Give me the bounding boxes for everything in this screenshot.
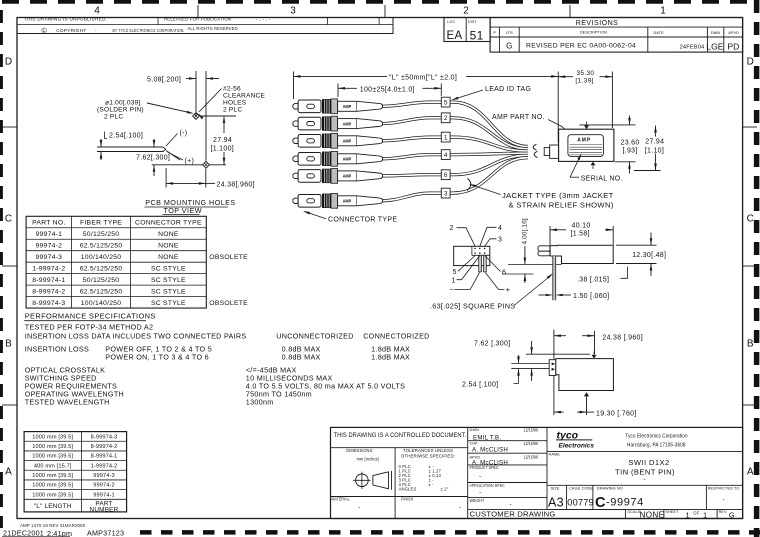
svg-text:[1.10]: [1.10] <box>645 147 664 154</box>
svg-text:1-99974-2: 1-99974-2 <box>32 265 65 272</box>
svg-text:INSERTION LOSS DATA INCLUDE: INSERTION LOSS DATA INCLUDES TWO CONNECT… <box>25 331 247 340</box>
svg-text:C: C <box>747 214 754 225</box>
svg-text:12/15/96: 12/15/96 <box>524 454 539 459</box>
svg-text:99974-3: 99974-3 <box>93 473 115 479</box>
svg-text:[1.58]: [1.58] <box>571 231 590 238</box>
svg-text:PART NO.: PART NO. <box>32 220 65 227</box>
svg-text:(SOLDER PIN): (SOLDER PIN) <box>97 107 144 114</box>
svg-text:A: A <box>5 467 12 478</box>
svg-text:EMIL T.B.: EMIL T.B. <box>473 434 501 441</box>
svg-text:2.54 [.100]: 2.54 [.100] <box>462 382 498 389</box>
svg-text:3: 3 <box>444 191 448 198</box>
svg-text:6: 6 <box>444 172 448 179</box>
svg-text:± -: ± - <box>429 482 435 487</box>
svg-text:ALL RIGHTS RESERVED.: ALL RIGHTS RESERVED. <box>188 26 240 31</box>
svg-text:A3: A3 <box>548 496 564 510</box>
svg-text:–: – <box>450 286 454 293</box>
svg-text:.63[.025] SQUARE PINS: .63[.025] SQUARE PINS <box>430 302 515 311</box>
svg-text:AMP: AMP <box>343 121 352 126</box>
svg-text:24.38[.960]: 24.38[.960] <box>217 181 255 188</box>
svg-text:100/140/250: 100/140/250 <box>81 254 122 261</box>
svg-text:P: P <box>493 31 496 35</box>
svg-text:D: D <box>747 57 754 68</box>
svg-text:12/15/96: 12/15/96 <box>524 427 539 432</box>
svg-text:50/125/250: 50/125/250 <box>83 277 120 284</box>
svg-text:40.10: 40.10 <box>572 222 591 229</box>
svg-text:FINISH: FINISH <box>401 496 413 501</box>
svg-text:CHK: CHK <box>470 442 479 446</box>
svg-text:1000 mm [39.5]: 1000 mm [39.5] <box>32 492 73 498</box>
svg-text:[1.100]: [1.100] <box>211 146 235 153</box>
svg-text:OBSOLETE: OBSOLETE <box>209 254 248 261</box>
svg-text:PD: PD <box>727 42 739 52</box>
svg-text:SC STYLE: SC STYLE <box>151 300 186 307</box>
svg-text:2: 2 <box>463 6 469 17</box>
svg-text:4.00[.16]: 4.00[.16] <box>521 218 528 244</box>
svg-text:7.62 [.300]: 7.62 [.300] <box>474 341 510 348</box>
svg-text:51: 51 <box>470 29 484 43</box>
svg-text:-: - <box>643 477 646 484</box>
svg-text:1300nm: 1300nm <box>246 397 274 406</box>
svg-text:& STRAIN RELIEF SHOWN): & STRAIN RELIEF SHOWN) <box>509 200 614 209</box>
svg-text:1: 1 <box>444 135 448 142</box>
svg-text:1: 1 <box>685 511 689 520</box>
svg-text:-: - <box>723 497 726 504</box>
svg-text:3: 3 <box>498 236 502 243</box>
svg-text:-: - <box>479 490 482 497</box>
svg-text:± 2°: ± 2° <box>441 487 449 492</box>
svg-text:2: 2 <box>450 225 454 232</box>
svg-text:DWN: DWN <box>470 428 480 432</box>
svg-text:+: + <box>506 285 511 294</box>
svg-text:REVISIONS: REVISIONS <box>576 20 619 27</box>
svg-text:1: 1 <box>660 6 666 17</box>
svg-text:#2-56: #2-56 <box>223 86 241 93</box>
svg-text:27.94: 27.94 <box>213 137 232 144</box>
svg-text:DWN: DWN <box>711 31 721 35</box>
svg-text:CUSTOMER DRAWING: CUSTOMER DRAWING <box>470 509 556 518</box>
svg-text:C: C <box>5 214 12 225</box>
svg-text:4: 4 <box>94 6 100 17</box>
svg-text:7.62[.300]: 7.62[.300] <box>136 155 170 162</box>
svg-text:AMP37123: AMP37123 <box>87 529 124 537</box>
svg-text:-: - <box>358 504 361 511</box>
svg-text:-: - <box>95 28 97 33</box>
svg-text:DESCRIPTION: DESCRIPTION <box>580 31 607 35</box>
svg-text:AMP: AMP <box>343 156 352 161</box>
svg-text:[1.39]: [1.39] <box>575 78 593 85</box>
svg-text:DRAWING NO: DRAWING NO <box>597 486 623 490</box>
svg-text:- , - . -: - , - . - <box>256 16 271 21</box>
svg-text:©: © <box>42 27 48 35</box>
svg-text:5: 5 <box>453 269 457 276</box>
svg-text:8-99974-2: 8-99974-2 <box>91 444 118 450</box>
svg-text:SERIAL NO.: SERIAL NO. <box>581 176 623 183</box>
svg-text:RELEASED FOR PUBLICATION: RELEASED FOR PUBLICATION <box>164 16 231 21</box>
svg-text:B: B <box>747 339 754 350</box>
svg-text:2 PLC: 2 PLC <box>223 107 242 114</box>
svg-text:12.30[.48]: 12.30[.48] <box>632 252 666 259</box>
svg-text:LTR: LTR <box>506 31 513 35</box>
svg-text:99974-1: 99974-1 <box>93 492 115 498</box>
svg-text:100±25[4.0±1.0]: 100±25[4.0±1.0] <box>360 86 415 93</box>
svg-text:WEIGHT: WEIGHT <box>470 498 485 503</box>
svg-text:8-99974-2: 8-99974-2 <box>32 288 65 295</box>
svg-text:EA: EA <box>447 30 463 42</box>
svg-text:1000 mm [39.5]: 1000 mm [39.5] <box>32 483 73 489</box>
svg-text:35.30: 35.30 <box>576 70 594 77</box>
svg-text:5: 5 <box>444 100 448 107</box>
svg-text:LOC: LOC <box>447 20 455 24</box>
svg-text:JACKET TYPE (3mm JACKET: JACKET TYPE (3mm JACKET <box>502 191 614 200</box>
svg-text:[.93]: [.93] <box>623 147 638 154</box>
svg-text:1000 mm [39.5]: 1000 mm [39.5] <box>32 444 73 450</box>
svg-text:(-): (-) <box>180 130 188 137</box>
svg-text:AMP: AMP <box>343 104 352 109</box>
svg-text:1.50 [.060]: 1.50 [.060] <box>573 293 609 300</box>
svg-text:SC STYLE: SC STYLE <box>151 265 186 272</box>
svg-text:MATERIAL: MATERIAL <box>332 496 351 501</box>
svg-text:99974-2: 99974-2 <box>93 483 115 489</box>
svg-text:2:41pm: 2:41pm <box>47 529 72 537</box>
svg-text:BY TYCO ELECTRONICS CORPORATIO: BY TYCO ELECTRONICS CORPORATION. <box>113 27 185 33</box>
svg-text:APPLICATION SPEC: APPLICATION SPEC <box>470 482 505 487</box>
svg-text:PERFORMANCE SPECIFICATIONS: PERFORMANCE SPECIFICATIONS <box>25 312 156 321</box>
svg-text:SWII D1X2: SWII D1X2 <box>628 458 669 467</box>
svg-text:2: 2 <box>444 115 448 122</box>
svg-text:B: B <box>5 339 12 350</box>
svg-text:62.5/125/250: 62.5/125/250 <box>80 288 123 295</box>
svg-text:Tyco Electronics Corporation: Tyco Electronics Corporation <box>625 433 687 439</box>
svg-text:1-99974-2: 1-99974-2 <box>91 463 118 469</box>
svg-text:THIS DRAWING IS A CONTROLL: THIS DRAWING IS A CONTROLLED DOCUMENT. <box>334 433 467 439</box>
svg-text:1: 1 <box>703 511 707 520</box>
svg-text:REV: REV <box>719 510 727 514</box>
svg-text:00779: 00779 <box>567 497 594 507</box>
svg-text:SC STYLE: SC STYLE <box>151 277 186 284</box>
svg-text:1000 mm [39.5]: 1000 mm [39.5] <box>32 434 73 440</box>
svg-text:AMP PART NO.: AMP PART NO. <box>492 114 545 121</box>
svg-text:"L" ±50mm["L" ±2.0]: "L" ±50mm["L" ±2.0] <box>389 74 457 81</box>
svg-text:G: G <box>729 511 735 520</box>
svg-text:REVISED PER EC 0A00-0062-04: REVISED PER EC 0A00-0062-04 <box>526 43 636 50</box>
svg-text:100/140/250: 100/140/250 <box>81 300 122 307</box>
svg-text:NONE: NONE <box>640 511 665 520</box>
svg-text:NONE: NONE <box>158 231 179 238</box>
svg-text:CLEARANCE: CLEARANCE <box>223 93 266 100</box>
svg-text:12/15/96: 12/15/96 <box>524 440 539 445</box>
svg-text:24.38 [.960]: 24.38 [.960] <box>602 334 643 341</box>
svg-text:-99974: -99974 <box>606 497 644 509</box>
svg-text:C: C <box>595 495 606 511</box>
svg-text:POWER ON, 1 TO 3 & 4 T: POWER ON, 1 TO 3 & 4 TO 6 <box>105 352 209 361</box>
svg-text:mm [inches]: mm [inches] <box>357 456 379 461</box>
svg-text:INSERTION LOSS: INSERTION LOSS <box>25 344 89 353</box>
svg-text:1000 mm [39.5]: 1000 mm [39.5] <box>32 473 73 479</box>
svg-text:2 PLC: 2 PLC <box>104 114 123 121</box>
svg-text:NAME: NAME <box>549 452 561 456</box>
svg-text:DIST: DIST <box>468 20 478 24</box>
svg-text:8-99974-1: 8-99974-1 <box>32 277 65 284</box>
svg-text:5.08[.200]: 5.08[.200] <box>147 77 181 84</box>
svg-text:CONNECTOR TYPE: CONNECTOR TYPE <box>328 216 397 223</box>
svg-text:.38 [.015]: .38 [.015] <box>577 276 609 283</box>
svg-text:LGE: LGE <box>706 42 723 52</box>
svg-text:8-99974-3: 8-99974-3 <box>32 300 65 307</box>
svg-text:A: A <box>747 467 754 478</box>
svg-text:99974-2: 99974-2 <box>35 243 62 250</box>
svg-text:8-99974-3: 8-99974-3 <box>91 434 118 440</box>
svg-text:"L" LENGTH: "L" LENGTH <box>34 503 72 510</box>
svg-text:FIBER TYPE: FIBER TYPE <box>80 220 122 227</box>
svg-text:G: G <box>506 41 512 50</box>
svg-text:27.94: 27.94 <box>645 138 664 145</box>
svg-text:AMP: AMP <box>343 198 352 203</box>
svg-text:SIZE: SIZE <box>551 486 560 490</box>
svg-text:CAGE CODE: CAGE CODE <box>569 486 593 490</box>
svg-text:400 mm [15.7]: 400 mm [15.7] <box>34 463 72 469</box>
svg-text:1.8dB MAX: 1.8dB MAX <box>371 352 410 361</box>
svg-text:Harrisburg, PA 17105-3608: Harrisburg, PA 17105-3608 <box>627 442 686 448</box>
svg-text:NUMBER: NUMBER <box>90 507 119 514</box>
svg-text:24FEB04: 24FEB04 <box>680 44 705 50</box>
svg-text:TOLERANCES UNLESS: TOLERANCES UNLESS <box>403 448 453 453</box>
svg-text:50/125/250: 50/125/250 <box>83 231 120 238</box>
svg-text:TESTED WAVELENGTH: TESTED WAVELENGTH <box>25 397 110 406</box>
svg-text:OBSOLETE: OBSOLETE <box>209 300 248 307</box>
svg-text:62.5/125/250: 62.5/125/250 <box>80 243 123 250</box>
svg-text:-: - <box>510 501 513 508</box>
svg-text:UNCONNECTORIZED: UNCONNECTORIZED <box>276 331 353 340</box>
svg-text:AMP: AMP <box>343 173 352 178</box>
svg-text:CONNECTOR TYPE: CONNECTOR TYPE <box>135 220 202 227</box>
svg-text:ANGLES: ANGLES <box>399 487 417 492</box>
svg-text:RESTRICTED TO: RESTRICTED TO <box>708 486 740 490</box>
svg-text:OF: OF <box>693 511 699 516</box>
svg-text:Electronics: Electronics <box>559 443 595 450</box>
svg-text:THIS DRAWING IS UNPUBLISHED.: THIS DRAWING IS UNPUBLISHED. <box>24 17 107 22</box>
svg-text:-: - <box>479 473 482 480</box>
svg-text:SC STYLE: SC STYLE <box>151 288 186 295</box>
svg-text:TIN (BENT PIN): TIN (BENT PIN) <box>615 468 675 477</box>
svg-text:0.8dB MAX: 0.8dB MAX <box>282 352 321 361</box>
svg-text:AMP: AMP <box>343 138 352 143</box>
svg-text:1: 1 <box>452 277 456 284</box>
svg-text:23.60: 23.60 <box>621 139 640 146</box>
svg-text:PRODUCT SPEC: PRODUCT SPEC <box>470 465 499 470</box>
svg-text:TOP VIEW: TOP VIEW <box>164 206 202 215</box>
svg-text:ø1.00[.039]: ø1.00[.039] <box>105 100 141 107</box>
svg-text:99974-1: 99974-1 <box>35 231 62 238</box>
svg-text:COPYRIGHT: COPYRIGHT <box>56 28 86 33</box>
svg-text:(+): (+) <box>185 158 195 165</box>
svg-text:AMP: AMP <box>577 137 591 143</box>
svg-text:NONE: NONE <box>158 243 179 250</box>
svg-text:19.30 [.760]: 19.30 [.760] <box>596 410 637 417</box>
svg-text:SHEET: SHEET <box>665 510 679 514</box>
svg-text:OTHERWISE SPECIFIED:: OTHERWISE SPECIFIED: <box>401 454 455 459</box>
svg-text:LEAD ID TAG: LEAD ID TAG <box>485 86 531 93</box>
svg-text:CONNECTORIZED: CONNECTORIZED <box>363 331 429 340</box>
svg-text:1000 mm [39.5]: 1000 mm [39.5] <box>32 454 73 460</box>
svg-text:DIMENSIONS:: DIMENSIONS: <box>346 448 373 453</box>
svg-text:D: D <box>5 57 12 68</box>
svg-text:HOLES: HOLES <box>223 100 247 107</box>
svg-text:NONE: NONE <box>158 254 179 261</box>
svg-text:21DEC2001: 21DEC2001 <box>3 529 44 537</box>
svg-text:A. McCLISH: A. McCLISH <box>472 447 508 454</box>
svg-text:99974-3: 99974-3 <box>35 254 62 261</box>
svg-text:TESTED PER FOTP-34 METHOD: TESTED PER FOTP-34 METHOD A2 <box>25 323 154 332</box>
svg-text:-: - <box>459 504 462 511</box>
svg-text:DATE: DATE <box>653 31 664 35</box>
svg-text:3: 3 <box>290 6 296 17</box>
svg-text:APVD: APVD <box>728 31 739 35</box>
svg-text:8-99974-1: 8-99974-1 <box>91 454 118 460</box>
svg-text:6: 6 <box>502 269 506 276</box>
svg-text:4: 4 <box>444 152 448 159</box>
svg-text:2.54[.100]: 2.54[.100] <box>109 133 143 140</box>
svg-text:4: 4 <box>498 225 502 232</box>
svg-text:62.5/125/250: 62.5/125/250 <box>80 265 123 272</box>
svg-text:AMP 1470-19 REV 31MAR2000: AMP 1470-19 REV 31MAR2000 <box>20 523 86 528</box>
